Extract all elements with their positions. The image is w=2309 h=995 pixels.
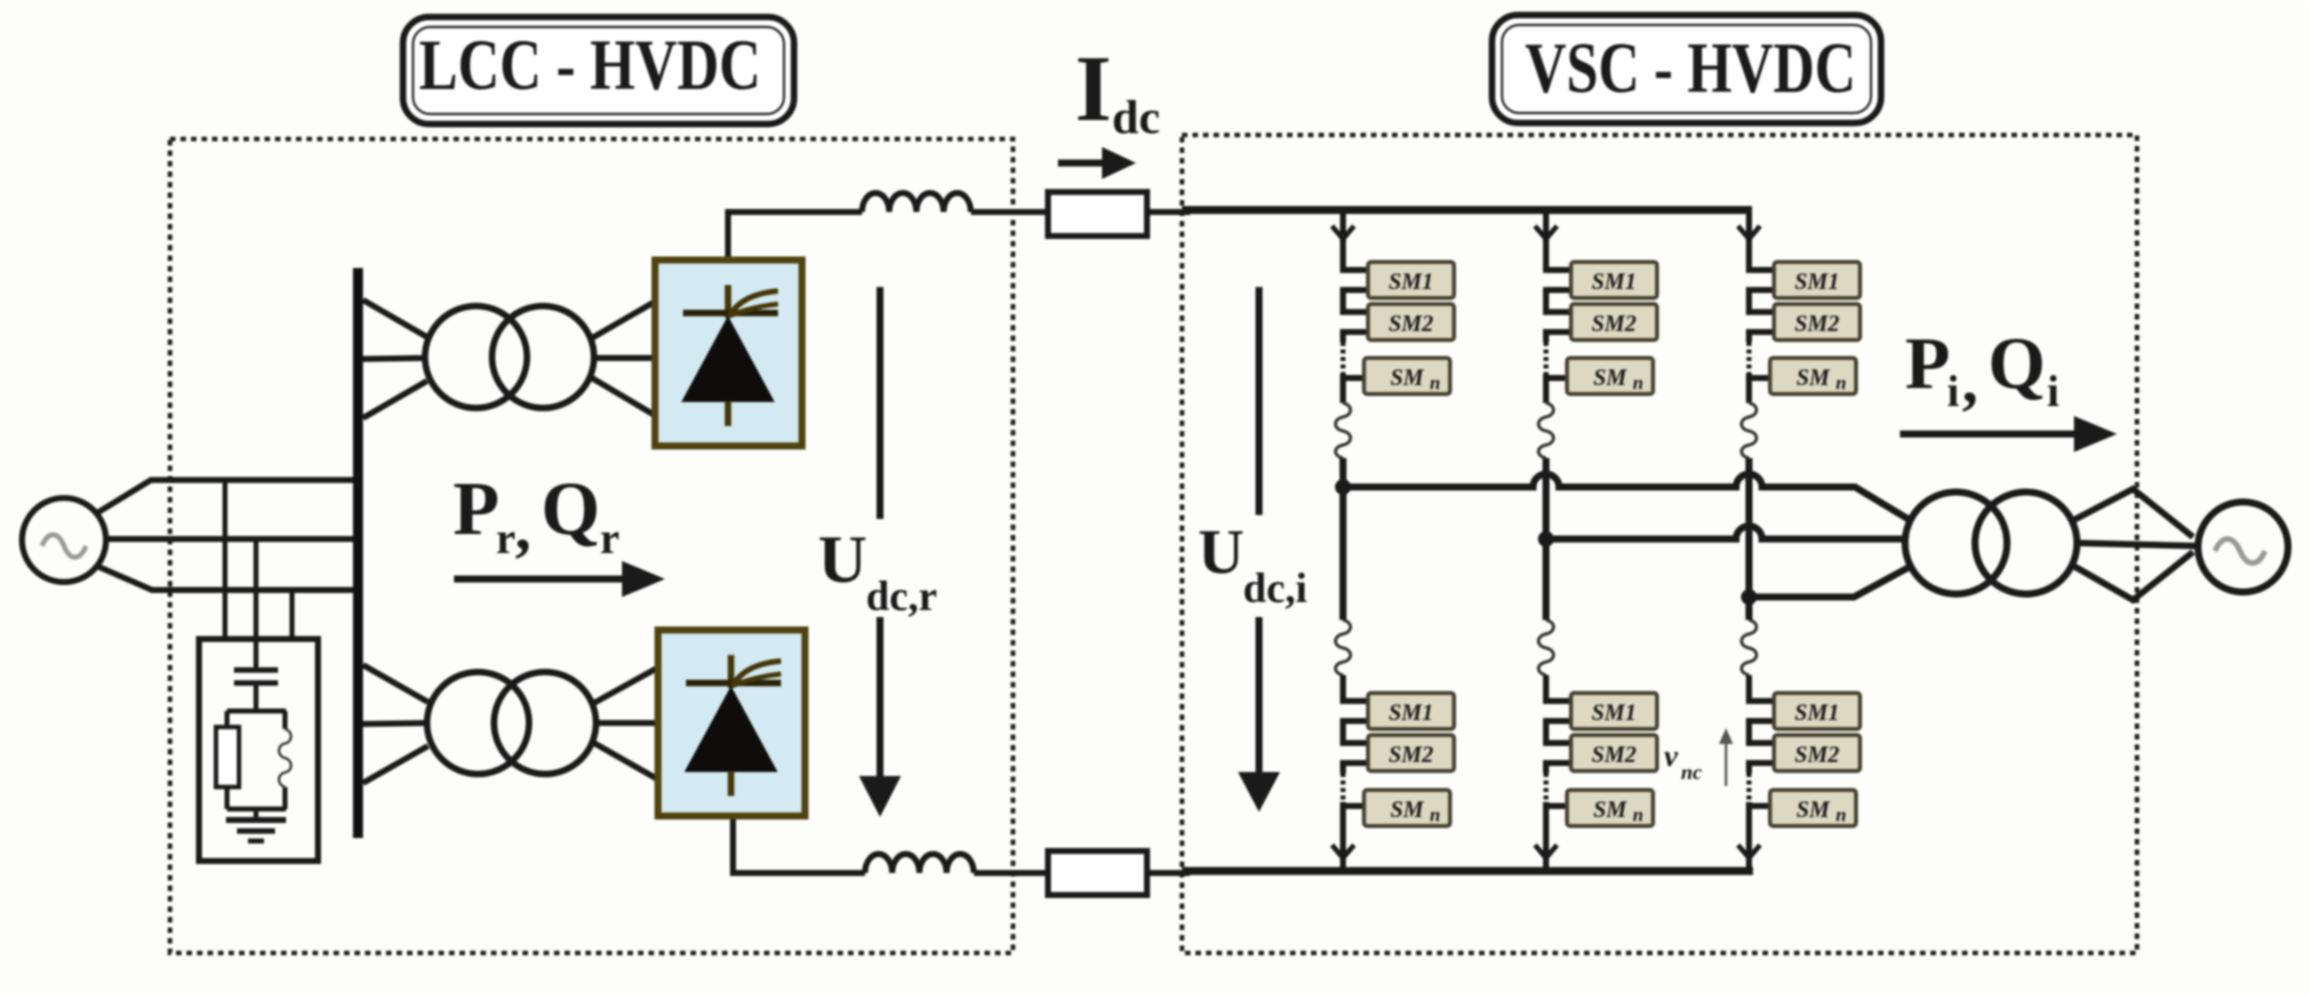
svg-text:i: i (1947, 367, 1959, 416)
svg-text:VSC - HVDC: VSC - HVDC (1525, 28, 1856, 108)
svg-text:U: U (1198, 516, 1244, 587)
svg-text:LCC - HVDC: LCC - HVDC (419, 25, 761, 105)
svg-text:r: r (600, 514, 620, 563)
svg-text:P: P (1905, 323, 1950, 405)
svg-text:,: , (1962, 345, 1978, 416)
svg-text:Q: Q (541, 467, 600, 551)
svg-text:I: I (1075, 37, 1112, 141)
svg-text:,: , (515, 492, 531, 563)
svg-text:i: i (2047, 367, 2059, 416)
svg-text:nc: nc (1681, 760, 1703, 784)
svg-text:r: r (496, 514, 516, 563)
svg-text:v: v (1664, 738, 1679, 773)
svg-text:dc,r: dc,r (866, 574, 937, 620)
svg-text:dc: dc (1112, 91, 1160, 144)
svg-text:dc,i: dc,i (1243, 566, 1308, 612)
svg-text:P: P (453, 467, 499, 551)
svg-text:Q: Q (1988, 323, 2046, 405)
svg-text:U: U (818, 521, 867, 597)
